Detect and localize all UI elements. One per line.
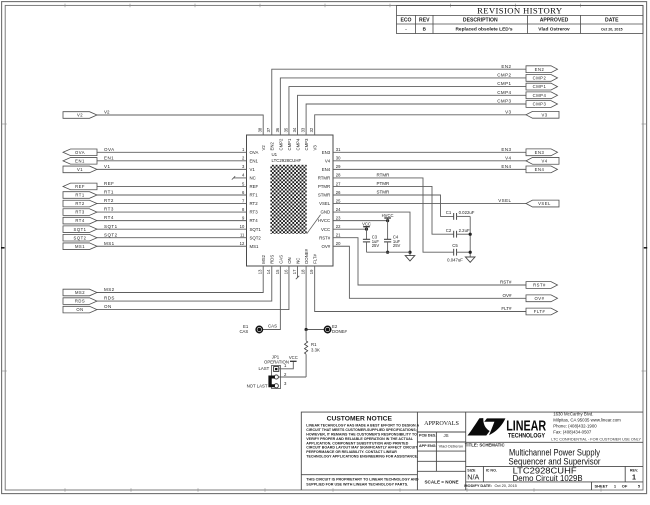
power flag HVCC xyxy=(387,218,389,221)
port flag MS2 xyxy=(63,289,97,296)
svg-text:FLT#: FLT# xyxy=(313,253,318,263)
capacitor C3 xyxy=(366,229,368,239)
svg-text:VSEL: VSEL xyxy=(538,201,551,206)
svg-text:25V: 25V xyxy=(372,243,380,248)
svg-text:V2: V2 xyxy=(261,145,266,151)
svg-text:U1: U1 xyxy=(272,152,278,157)
port flag V3 xyxy=(526,111,559,118)
svg-text:V4: V4 xyxy=(541,158,547,163)
svg-text:19: 19 xyxy=(309,269,314,274)
svg-text:Oct 20, 2015: Oct 20, 2015 xyxy=(495,483,517,488)
junction C4 bottom xyxy=(386,251,389,254)
wire net PTMR xyxy=(333,186,453,234)
svg-text:MS1: MS1 xyxy=(250,244,260,249)
port flag CMP3 xyxy=(526,101,558,108)
svg-text:V3: V3 xyxy=(505,109,511,114)
svg-text:Phone: (408)432-1900: Phone: (408)432-1900 xyxy=(553,424,597,429)
svg-text:EN2: EN2 xyxy=(535,67,545,72)
U1 left pin names xyxy=(250,150,262,249)
junction VCC xyxy=(365,228,368,231)
svg-text:EN2: EN2 xyxy=(501,64,511,69)
U1 pin 17 NC stub xyxy=(297,266,299,278)
wire net RTMR xyxy=(333,178,453,252)
svg-text:Demo Circuit 1029B: Demo Circuit 1029B xyxy=(513,473,583,483)
svg-text:PTMR: PTMR xyxy=(318,184,330,189)
port flag RT3 xyxy=(63,209,97,216)
wire R1 to JP1 pin2 xyxy=(279,376,306,378)
wire net RT3 xyxy=(97,211,247,213)
port flag EN3 xyxy=(526,149,558,156)
U1 exposed pad (pin 39) xyxy=(270,165,306,234)
svg-text:DONE#: DONE# xyxy=(304,248,309,263)
svg-text:RT1: RT1 xyxy=(75,193,85,198)
wire net V4 xyxy=(333,160,526,162)
port flag V2 xyxy=(63,112,97,119)
svg-text:3.3K: 3.3K xyxy=(311,348,320,353)
svg-text:15: 15 xyxy=(275,269,280,274)
wire net V1 xyxy=(97,168,247,170)
port flag FLT# xyxy=(526,308,558,315)
svg-text:RT2: RT2 xyxy=(250,201,259,206)
svg-text:V4: V4 xyxy=(325,158,331,163)
svg-text:LINEAR TECHNOLOGY HAS MADE A B: LINEAR TECHNOLOGY HAS MADE A BEST EFFORT… xyxy=(306,424,419,428)
wire GND pin 24 xyxy=(333,212,410,256)
svg-text:EN4: EN4 xyxy=(501,164,511,169)
svg-text:Vlad Ostrerov: Vlad Ostrerov xyxy=(538,27,570,33)
svg-text:VSEL: VSEL xyxy=(319,201,331,206)
wire net CMP1 xyxy=(289,87,526,135)
svg-text:0.047uF: 0.047uF xyxy=(447,257,463,262)
U1 pin 4 NC stub xyxy=(234,177,247,179)
svg-text:CMP1: CMP1 xyxy=(497,81,511,86)
svg-text:HOWEVER, IT REMAINS THE CUSTOM: HOWEVER, IT REMAINS THE CUSTOMER'S RESPO… xyxy=(306,432,417,436)
wire net FLT# xyxy=(315,266,526,312)
svg-text:OVA: OVA xyxy=(250,150,259,155)
svg-text:Oct 20, 2015: Oct 20, 2015 xyxy=(601,27,623,31)
svg-text:13: 13 xyxy=(258,269,263,274)
svg-text:36: 36 xyxy=(275,127,280,132)
svg-text:V2: V2 xyxy=(77,113,83,118)
wire net DONE# xyxy=(306,266,324,330)
svg-text:C5: C5 xyxy=(452,243,458,248)
svg-text:RST#: RST# xyxy=(500,280,512,285)
JP1 pin 2 pad xyxy=(274,375,278,379)
svg-text:V3: V3 xyxy=(313,145,318,151)
svg-text:SHEET: SHEET xyxy=(595,483,609,488)
svg-text:RDS: RDS xyxy=(104,296,115,301)
wire JP1 pin1 to VCC xyxy=(279,361,293,369)
port flag CMP4 xyxy=(526,92,558,99)
junction DONE#/R1 xyxy=(305,328,308,331)
svg-text:N/A: N/A xyxy=(467,472,479,481)
svg-text:Fax: (408)434-0507: Fax: (408)434-0507 xyxy=(553,429,592,434)
junction C5 common xyxy=(469,251,472,254)
svg-text:RT1: RT1 xyxy=(104,190,114,195)
svg-text:RT4: RT4 xyxy=(75,218,85,223)
svg-text:APP ENG.: APP ENG. xyxy=(419,444,437,448)
wire net OV# xyxy=(333,246,526,298)
svg-text:OF: OF xyxy=(622,483,628,488)
svg-text:GND: GND xyxy=(321,210,331,215)
svg-text:Vlad Ostrerov: Vlad Ostrerov xyxy=(439,443,463,448)
svg-text:12: 12 xyxy=(240,241,245,246)
svg-text:APPROVALS: APPROVALS xyxy=(424,421,459,427)
svg-text:CIRCUIT THAT MEETS CUSTOMER-SU: CIRCUIT THAT MEETS CUSTOMER-SUPPLIED SPE… xyxy=(306,428,417,432)
svg-text:OV#: OV# xyxy=(502,293,512,298)
svg-text:CMP3: CMP3 xyxy=(497,99,511,104)
svg-text:REF: REF xyxy=(75,184,85,189)
junction HVCC xyxy=(386,219,389,222)
svg-text:LAST: LAST xyxy=(259,366,270,371)
svg-text:21: 21 xyxy=(336,233,341,238)
svg-text:1: 1 xyxy=(632,473,636,482)
port flag CMP1 xyxy=(526,83,558,90)
svg-text:MS1: MS1 xyxy=(75,244,85,249)
port flag ON xyxy=(63,306,97,313)
JP1 shunt on pins 2-3 xyxy=(270,377,275,386)
revision history table xyxy=(397,6,644,34)
wire net EN1 xyxy=(97,160,247,162)
svg-text:27: 27 xyxy=(336,181,341,186)
svg-text:CIRCUIT BOARD LAYOUT MAY SIGNI: CIRCUIT BOARD LAYOUT MAY SIGNIFICANTLY A… xyxy=(306,446,418,450)
wire net CMP3 xyxy=(306,104,526,135)
wire net RST# xyxy=(333,238,526,285)
svg-text:16: 16 xyxy=(283,269,288,274)
svg-text:NOT LAST: NOT LAST xyxy=(247,383,268,388)
wire net STMR xyxy=(333,195,453,216)
svg-text:CMP3: CMP3 xyxy=(304,138,309,151)
test point E2 DONE# xyxy=(324,326,330,332)
svg-text:OVA: OVA xyxy=(104,147,115,152)
svg-text:V3: V3 xyxy=(541,112,547,117)
svg-text:OV#: OV# xyxy=(321,244,330,249)
svg-text:26: 26 xyxy=(336,190,341,195)
svg-text:Milpitas, CA 95035 www.linea: Milpitas, CA 95035 www.linear.com xyxy=(553,418,621,423)
svg-text:V1: V1 xyxy=(250,167,256,172)
test point E1 CAS xyxy=(256,326,262,332)
svg-text:38: 38 xyxy=(258,127,263,132)
svg-text:ON: ON xyxy=(104,304,112,309)
port flag V4 xyxy=(526,157,559,164)
svg-text:RT3: RT3 xyxy=(104,207,114,212)
wire HVCC pin 23 xyxy=(333,220,388,222)
wire timer cap common xyxy=(469,216,471,257)
wire net V3 xyxy=(315,115,526,135)
U1 left pin numbers 1-12 xyxy=(240,147,245,246)
ground U1 xyxy=(405,256,415,261)
svg-text:SQT2: SQT2 xyxy=(74,235,87,240)
wire net MS1 xyxy=(97,245,247,247)
svg-text:18: 18 xyxy=(301,269,306,274)
svg-text:ON: ON xyxy=(287,257,292,263)
svg-text:30: 30 xyxy=(336,156,341,161)
svg-text:APPROVED: APPROVED xyxy=(540,18,569,24)
svg-text:PTMR: PTMR xyxy=(377,181,390,186)
svg-text:CUSTOMER NOTICE: CUSTOMER NOTICE xyxy=(327,415,393,422)
port flag V1 xyxy=(63,166,97,173)
svg-text:2.2uF: 2.2uF xyxy=(459,228,470,233)
svg-text:CMP3: CMP3 xyxy=(533,102,547,107)
svg-text:V1: V1 xyxy=(77,167,83,172)
port flag EN1 xyxy=(63,158,97,165)
svg-text:SQT1: SQT1 xyxy=(250,227,262,232)
svg-text:TITLE: SCHEMATIC: TITLE: SCHEMATIC xyxy=(465,443,505,448)
svg-text:SCALE = NONE: SCALE = NONE xyxy=(424,480,458,485)
svg-text:RT2: RT2 xyxy=(104,198,114,203)
svg-text:EN3: EN3 xyxy=(535,150,545,155)
wire net EN3 xyxy=(333,151,526,153)
JP1 pin 1 pad xyxy=(274,367,279,372)
svg-text:EN4: EN4 xyxy=(535,167,545,172)
wire net RT2 xyxy=(97,203,247,205)
svg-text:EN4: EN4 xyxy=(322,167,331,172)
port flag EN4 xyxy=(526,166,558,173)
svg-text:OVA: OVA xyxy=(75,150,85,155)
svg-text:RTMR: RTMR xyxy=(377,172,391,177)
junction C2 common xyxy=(469,233,472,236)
svg-text:HVCC: HVCC xyxy=(382,213,394,218)
capacitor C1 xyxy=(454,213,457,220)
svg-text:DATE: DATE xyxy=(605,18,619,24)
svg-text:RT3: RT3 xyxy=(75,210,85,215)
U1 right pin numbers 31-20 xyxy=(336,147,341,246)
svg-text:EN1: EN1 xyxy=(104,155,114,160)
Linear Technology logo xyxy=(468,418,506,435)
svg-text:32: 32 xyxy=(309,127,314,132)
svg-text:25: 25 xyxy=(336,198,341,203)
svg-text:RST#: RST# xyxy=(533,283,546,288)
svg-text:V4: V4 xyxy=(505,155,511,160)
svg-text:28: 28 xyxy=(336,173,341,178)
svg-text:ON: ON xyxy=(76,307,83,312)
svg-text:17: 17 xyxy=(292,269,297,274)
wire net CAS xyxy=(262,266,280,330)
svg-text:SQT2: SQT2 xyxy=(250,235,262,240)
svg-text:CMP1: CMP1 xyxy=(533,84,547,89)
wire net REF xyxy=(97,185,247,187)
svg-text:11: 11 xyxy=(240,233,245,238)
wire net OVA xyxy=(97,151,247,153)
U1 right pin names xyxy=(318,150,331,249)
svg-text:FLT#: FLT# xyxy=(534,309,546,314)
svg-text:PCB DES.: PCB DES. xyxy=(419,434,436,438)
svg-text:1630 McCarthy Blvd.: 1630 McCarthy Blvd. xyxy=(553,412,593,417)
svg-text:RT3: RT3 xyxy=(250,210,259,215)
wire net ON xyxy=(97,266,289,310)
wire net RT1 xyxy=(97,194,247,196)
port flag OV# xyxy=(526,295,558,302)
svg-text:EN2: EN2 xyxy=(270,142,275,151)
svg-text:LTC CONFIDENTIAL - FOR CUSTOME: LTC CONFIDENTIAL - FOR CUSTOMER USE ONLY xyxy=(551,437,641,441)
port flag EN2 xyxy=(526,66,558,73)
svg-text:RDS: RDS xyxy=(270,255,275,264)
port flag RST# xyxy=(526,282,558,289)
svg-text:REF: REF xyxy=(104,181,114,186)
svg-text:MS2: MS2 xyxy=(75,290,85,295)
power flag VCC (JP1) xyxy=(290,360,297,362)
svg-text:CMP2: CMP2 xyxy=(497,73,511,78)
svg-text:10: 10 xyxy=(240,224,245,229)
svg-text:NC: NC xyxy=(295,258,300,264)
svg-text:ECO: ECO xyxy=(400,18,411,24)
svg-text:FLT#: FLT# xyxy=(501,306,512,311)
port flag VSEL xyxy=(526,200,559,207)
svg-text:REV: REV xyxy=(419,18,430,24)
svg-text:RDS: RDS xyxy=(75,299,85,304)
wire VCC pin 22 xyxy=(333,228,367,230)
port flag MS1 xyxy=(63,243,97,250)
svg-text:MS2: MS2 xyxy=(261,254,266,263)
svg-text:29: 29 xyxy=(336,164,341,169)
svg-text:24: 24 xyxy=(336,207,341,212)
svg-text:SQT1: SQT1 xyxy=(104,224,118,229)
svg-text:25V: 25V xyxy=(393,243,401,248)
svg-text:STMR: STMR xyxy=(318,193,330,198)
svg-text:EN3: EN3 xyxy=(501,147,511,152)
svg-text:DESCRIPTION: DESCRIPTION xyxy=(463,18,498,24)
U1 bottom pin names xyxy=(261,248,317,263)
svg-text:SQT2: SQT2 xyxy=(104,232,118,237)
svg-text:R1: R1 xyxy=(311,342,317,347)
svg-text:REVISION HISTORY: REVISION HISTORY xyxy=(477,6,563,16)
svg-text:SQT1: SQT1 xyxy=(74,227,87,232)
svg-text:CMP2: CMP2 xyxy=(533,76,547,81)
resistor R1 3.3K xyxy=(305,330,307,341)
svg-text:EN1: EN1 xyxy=(250,158,259,163)
exposed pad to GND tie line xyxy=(307,215,321,234)
svg-text:CAS: CAS xyxy=(239,329,248,334)
svg-text:Replaced obsolete LED's: Replaced obsolete LED's xyxy=(455,27,512,33)
svg-text:20: 20 xyxy=(336,241,341,246)
title block frame xyxy=(301,412,643,490)
svg-text:OV#: OV# xyxy=(535,296,545,301)
wire net SQT1 xyxy=(97,228,247,230)
port flag OVA xyxy=(63,149,97,156)
wire net V2 xyxy=(97,115,263,135)
svg-text:V1: V1 xyxy=(104,164,110,169)
svg-text:C1: C1 xyxy=(446,210,452,215)
wire net CMP2 xyxy=(280,78,526,135)
svg-text:14: 14 xyxy=(266,269,271,274)
wire net EN2 xyxy=(272,69,526,135)
op IC U1 LTC2928CUHF body xyxy=(247,135,334,266)
svg-text:34: 34 xyxy=(292,127,297,132)
wire net EN4 xyxy=(333,168,526,170)
svg-text:RT1: RT1 xyxy=(250,193,259,198)
svg-text:V2: V2 xyxy=(104,110,110,115)
svg-text:DONE#: DONE# xyxy=(332,329,347,334)
svg-text:35: 35 xyxy=(283,127,288,132)
svg-text:TECHNOLOGY: TECHNOLOGY xyxy=(508,432,545,439)
svg-text:37: 37 xyxy=(266,127,271,132)
svg-text:23: 23 xyxy=(336,215,341,220)
capacitor C2 xyxy=(454,231,457,238)
svg-text:STMR: STMR xyxy=(377,190,390,195)
U1 top pin names xyxy=(261,138,317,151)
svg-text:LTC2928CUHF: LTC2928CUHF xyxy=(272,158,302,163)
svg-text:CMP1: CMP1 xyxy=(287,138,292,151)
port flag CMP2 xyxy=(526,75,558,82)
svg-text:JS: JS xyxy=(443,433,448,438)
svg-text:VCC: VCC xyxy=(321,227,330,232)
svg-text:THIS CIRCUIT IS PROPRIETARY TO: THIS CIRCUIT IS PROPRIETARY TO LINEAR TE… xyxy=(306,478,419,482)
svg-text:0.022uF: 0.022uF xyxy=(459,210,475,215)
svg-text:MS1: MS1 xyxy=(104,241,115,246)
junction gnd rail xyxy=(408,251,411,254)
svg-text:EN3: EN3 xyxy=(322,150,331,155)
svg-text:VSEL: VSEL xyxy=(498,198,511,203)
port flag REF xyxy=(63,183,97,190)
wire net VSEL xyxy=(333,203,526,205)
svg-text:VERIFY PROPER AND RELIABLE OPE: VERIFY PROPER AND RELIABLE OPERATION IN … xyxy=(306,437,414,441)
JP1 pin 3 pad xyxy=(274,384,278,388)
svg-text:31: 31 xyxy=(336,147,341,152)
port flag RT2 xyxy=(63,200,97,207)
svg-text:C2: C2 xyxy=(446,228,452,233)
svg-text:RT4: RT4 xyxy=(104,215,114,220)
U1 top pin numbers 38-32 xyxy=(258,127,314,132)
wire net RT4 xyxy=(97,220,247,222)
port flag SQT1 xyxy=(63,226,97,233)
svg-text:MODIFY DATE:: MODIFY DATE: xyxy=(464,483,492,488)
svg-text:TECHNOLOGY APPLICATIONS ENGINE: TECHNOLOGY APPLICATIONS ENGINEERING FOR … xyxy=(306,455,418,459)
svg-text:RST#: RST# xyxy=(319,235,331,240)
svg-text:PERFORMANCE OR RELIABILITY. C: PERFORMANCE OR RELIABILITY. CONTACT LINE… xyxy=(306,450,397,454)
svg-text:RTMR: RTMR xyxy=(318,176,330,181)
svg-text:33: 33 xyxy=(301,127,306,132)
wire net CMP4 xyxy=(298,95,526,135)
svg-text:22: 22 xyxy=(336,224,341,229)
svg-text:VCC: VCC xyxy=(289,355,298,360)
wire net SQT2 xyxy=(97,237,247,239)
wire decoupling ground rail xyxy=(367,251,411,253)
svg-text:CMP4: CMP4 xyxy=(533,93,547,98)
port flag RT4 xyxy=(63,217,97,224)
svg-text:SUPPLIED FOR USE WITH LINEAR T: SUPPLIED FOR USE WITH LINEAR TECHNOLOGY … xyxy=(306,483,408,487)
svg-text:APPLICATION. COMPONENT SUBSTI: APPLICATION. COMPONENT SUBSTITUTION AND … xyxy=(306,441,408,445)
wire net RDS xyxy=(97,266,272,301)
svg-text:CMP2: CMP2 xyxy=(278,138,283,151)
svg-text:RT4: RT4 xyxy=(250,218,259,223)
port flag RT1 xyxy=(63,192,97,199)
port flag RDS xyxy=(63,298,97,305)
svg-text:CAS: CAS xyxy=(278,255,283,264)
svg-text:HVCC: HVCC xyxy=(318,218,330,223)
port flag SQT2 xyxy=(63,234,97,241)
U1 bottom pin numbers 13-19 xyxy=(258,269,314,274)
power flag VCC xyxy=(366,227,368,229)
svg-text:EN1: EN1 xyxy=(75,158,85,163)
svg-text:CMP4: CMP4 xyxy=(497,90,511,95)
ground timer caps xyxy=(465,257,475,262)
capacitor C4 xyxy=(387,221,389,240)
capacitor C5 xyxy=(454,249,457,256)
svg-text:MS2: MS2 xyxy=(104,287,115,292)
svg-text:NC: NC xyxy=(250,176,256,181)
svg-text:VCC: VCC xyxy=(362,222,371,227)
svg-text:RT2: RT2 xyxy=(75,201,85,206)
svg-text:CAS: CAS xyxy=(268,324,277,329)
wire net MS2 xyxy=(97,266,263,293)
svg-text:REF: REF xyxy=(250,184,259,189)
svg-text:CMP4: CMP4 xyxy=(295,138,300,151)
svg-text:IC NO.: IC NO. xyxy=(486,468,497,472)
